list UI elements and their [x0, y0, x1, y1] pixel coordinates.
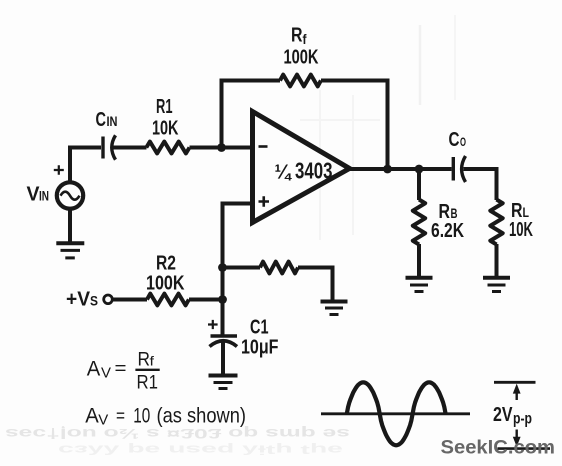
ground (balance resistor) — [321, 302, 348, 315]
wire CIN to R1 — [113, 146, 147, 150]
wire feedback right + down to output — [321, 81, 388, 170]
capacitor C1 (polarized) — [210, 336, 238, 347]
svg-text:=: = — [116, 406, 125, 426]
svg-text:L: L — [523, 205, 530, 220]
arrow up — [516, 391, 518, 400]
svg-text:B: B — [451, 206, 458, 221]
resistor Rf — [280, 75, 321, 87]
waveform axis — [321, 412, 470, 415]
capacitor CIN — [103, 135, 116, 159]
svg-text:se qms qo £0£¤ s ½o uoļ†ɔəs: se qms qo £0£¤ s ½o uoļ†ɔəs — [5, 426, 350, 442]
svg-text:R1: R1 — [156, 96, 173, 118]
wire CO to RL — [464, 169, 497, 200]
resistor R2 — [147, 294, 189, 306]
svg-text:SeekIC.com: SeekIC.com — [441, 438, 556, 459]
minus input symbol — [259, 145, 268, 148]
wire RL to ground — [495, 244, 499, 277]
svg-text:100K: 100K — [284, 47, 319, 69]
annotation bottom bar — [498, 447, 551, 450]
wire VIN to ground — [68, 210, 72, 243]
svg-text:R: R — [291, 25, 303, 47]
wire resistor to ground — [298, 268, 333, 302]
svg-text:+V: +V — [66, 289, 91, 311]
svg-text:IN: IN — [107, 114, 118, 129]
node plus-branch junction — [218, 263, 227, 272]
op-amp U1 (1/4 3403) — [253, 112, 350, 223]
svg-text:V: V — [101, 365, 111, 382]
svg-text:10μF: 10μF — [241, 337, 279, 359]
terminal +VS — [104, 295, 113, 304]
svg-text:V: V — [98, 411, 108, 428]
wire R2 to junction — [189, 298, 223, 302]
plus sign of VIN — [54, 165, 64, 175]
node R2 junction — [218, 295, 227, 304]
wire RB drop — [417, 169, 421, 200]
resistor (balance, unlabeled) — [260, 262, 298, 274]
svg-text:6.2K: 6.2K — [431, 220, 464, 242]
svg-text:R: R — [138, 350, 151, 371]
wire input row: VIN to CIN — [70, 148, 101, 182]
svg-text:f: f — [150, 354, 155, 369]
ground (under VIN) — [56, 243, 84, 258]
ground (under RB) — [406, 278, 433, 292]
resistor R1 — [146, 142, 189, 154]
arrow down — [516, 430, 518, 440]
wire C1 to ground — [221, 342, 225, 374]
svg-text:C: C — [96, 109, 107, 131]
svg-text:R2: R2 — [156, 253, 176, 275]
svg-text:A: A — [85, 404, 99, 427]
resistor RL (vertical) — [490, 200, 502, 245]
source VIN — [57, 182, 83, 208]
wire +VS to R2 — [113, 298, 147, 302]
formula AV = Rf/R1 — [85, 350, 246, 429]
svg-text:A: A — [87, 358, 101, 381]
plus input symbol — [259, 196, 270, 207]
svg-text:(as shown): (as shown) — [157, 404, 247, 427]
wire RB to ground — [417, 244, 421, 277]
wire branch to balance resistor — [223, 266, 261, 270]
svg-text:3403: 3403 — [295, 158, 333, 184]
svg-text:10: 10 — [133, 404, 150, 427]
svg-text:2V: 2V — [493, 404, 513, 426]
resistor RB (vertical) — [413, 200, 425, 245]
ground (under RL) — [483, 278, 510, 292]
wire junction to C1 — [221, 300, 225, 335]
svg-text:¼: ¼ — [275, 162, 293, 184]
wire R1 to op-amp minus input — [190, 146, 252, 150]
svg-text:C1: C1 — [250, 317, 269, 339]
waveform sine — [347, 382, 446, 445]
plus sign of C1 — [208, 320, 218, 329]
node RB junction — [415, 165, 424, 174]
svg-text:C: C — [449, 129, 460, 151]
wire output row — [350, 167, 452, 171]
wire feedback left vertical — [222, 81, 281, 148]
svg-text:f: f — [303, 32, 307, 47]
svg-text:əɥʇ ɥʇɨʎ pəsn əq ʎʎɛɔ: əɥʇ ɥʇɨʎ pəsn əq ʎʎɛɔ — [58, 443, 343, 458]
svg-text:100K: 100K — [146, 273, 185, 295]
ground (under C1) — [209, 376, 238, 389]
node feedback/output junction — [383, 165, 392, 174]
svg-text:O: O — [460, 135, 466, 149]
capacitor CO — [453, 156, 465, 182]
svg-text:IN: IN — [39, 189, 49, 204]
svg-text:10K: 10K — [152, 118, 179, 140]
svg-text:R1: R1 — [137, 373, 159, 394]
wire plus input — [223, 204, 252, 300]
svg-text:10K: 10K — [509, 219, 533, 241]
annotation 2Vp-p top bar — [494, 381, 536, 384]
svg-text:p-p: p-p — [513, 410, 532, 427]
node minus-input junction — [217, 143, 226, 152]
svg-text:=: = — [115, 358, 127, 378]
svg-text:S: S — [90, 294, 98, 309]
